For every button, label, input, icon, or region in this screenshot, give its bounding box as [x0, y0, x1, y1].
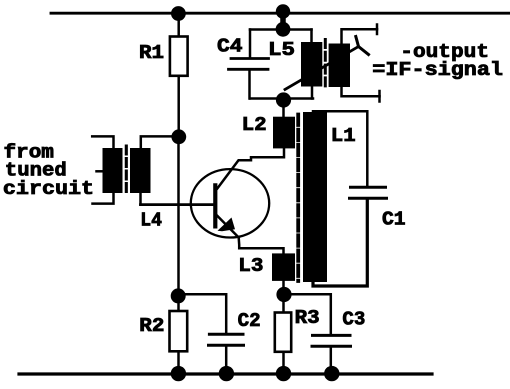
wire R1 column (rail to R1)	[177, 14, 180, 37]
wire node to R2	[177, 296, 180, 311]
wire divider vertical (node to R2 node, crosses base wire)	[177, 137, 180, 296]
wire C4 left branch upper	[249, 30, 252, 59]
wire C4/L5 loop bottom	[250, 97, 313, 100]
capacitor C4	[229, 59, 269, 70]
L5 tuning arrow barb down	[359, 47, 369, 55]
wire node to R3	[282, 302, 285, 313]
wire L4 secondary top to divider node	[141, 136, 178, 148]
svg-text:=IF-signal: =IF-signal	[372, 59, 503, 81]
transistor Q1 emitter arrowhead	[218, 218, 236, 232]
svg-text:L2: L2	[242, 114, 267, 136]
inductor L5 secondary	[329, 44, 350, 88]
svg-text:C1: C1	[382, 209, 406, 231]
wire L5 primary bottom lead	[311, 86, 314, 99]
resistor R3	[275, 313, 291, 352]
L4 core dashed line	[125, 146, 128, 192]
svg-text:L4: L4	[140, 210, 162, 232]
node top rail / C4-L5	[276, 4, 290, 18]
transistor Q1 body	[191, 169, 269, 237]
wire C4/L5 loop top	[250, 28, 312, 31]
wire L5 secondary top lead + stub	[342, 29, 378, 44]
capacitor C2	[209, 334, 244, 345]
inductor L5 primary	[301, 42, 322, 87]
terminal tick output bottom	[378, 91, 381, 102]
transistor Q1 base bar	[213, 185, 217, 226]
node C4/L5 loop top	[276, 22, 291, 37]
wire base from L4	[141, 203, 216, 206]
L1 core dashed line	[296, 115, 300, 282]
L5 tuning arrow shaft	[285, 47, 359, 90]
wire node to L2 top	[282, 100, 285, 117]
capacitor C3	[312, 335, 351, 346]
node C4/L5 loop bottom	[276, 92, 291, 107]
wire L5 secondary bottom lead + stub	[342, 87, 380, 97]
svg-text:L3: L3	[238, 255, 263, 277]
node ground rail / R3	[276, 366, 291, 381]
svg-text:C2: C2	[238, 310, 261, 332]
svg-text:circuit: circuit	[3, 178, 94, 200]
wire C3 branch top	[284, 294, 331, 334]
svg-text:L1: L1	[331, 125, 356, 147]
inductor L4 primary	[103, 148, 123, 193]
wire L5 primary top lead	[310, 30, 313, 44]
inductor L4 secondary	[130, 148, 151, 193]
wire bottom ground rail	[19, 372, 432, 375]
svg-text:R3: R3	[295, 307, 320, 329]
wire C3 to rail	[330, 348, 333, 374]
wire L1 top to C1	[313, 111, 367, 186]
wire emitter to L3	[239, 238, 284, 255]
node top rail / R1	[171, 6, 186, 21]
node L3/R3/C3	[276, 287, 291, 302]
inductor L2	[273, 117, 295, 149]
node ground rail / C2	[219, 366, 234, 381]
transistor Q1 emitter	[216, 215, 239, 238]
wire R3 to rail	[282, 352, 285, 373]
node R2/C2	[171, 288, 186, 303]
wire L4 primary top stub	[92, 136, 113, 148]
wire R2 to rail	[177, 351, 180, 373]
svg-text:L5: L5	[268, 39, 295, 61]
wire top supply rail	[51, 12, 510, 15]
inductor L3	[272, 253, 295, 281]
terminal tick output top	[376, 25, 379, 35]
wire L3 bottom to node	[282, 281, 285, 295]
capacitor C1	[350, 187, 387, 198]
resistor R1	[170, 37, 188, 76]
node ground rail / C3	[324, 366, 339, 381]
resistor R2	[170, 311, 188, 351]
wire L4 primary tap tick	[97, 170, 104, 173]
svg-text:R1: R1	[139, 42, 164, 64]
inductor L1	[303, 112, 327, 282]
L5 core dashed line	[324, 40, 327, 88]
svg-text:C3: C3	[342, 309, 365, 331]
svg-text:C4: C4	[217, 35, 243, 57]
wire C2 branch top	[179, 294, 227, 333]
wire L2 bottom to collector	[217, 148, 284, 188]
wire R1 bottom to node	[177, 76, 180, 137]
wire C4 left branch lower	[248, 71, 251, 99]
node R1/L4 junction	[171, 129, 186, 144]
L5 tuning arrow barb up	[356, 37, 359, 47]
wire C1 to L1 bottom	[313, 200, 367, 287]
svg-text:R2: R2	[139, 315, 164, 337]
wire C2 to rail	[225, 347, 228, 374]
wire L4 secondary bottom lead	[139, 193, 142, 205]
node ground rail / R2	[171, 366, 186, 381]
wire L4 primary bottom stub	[93, 193, 114, 204]
